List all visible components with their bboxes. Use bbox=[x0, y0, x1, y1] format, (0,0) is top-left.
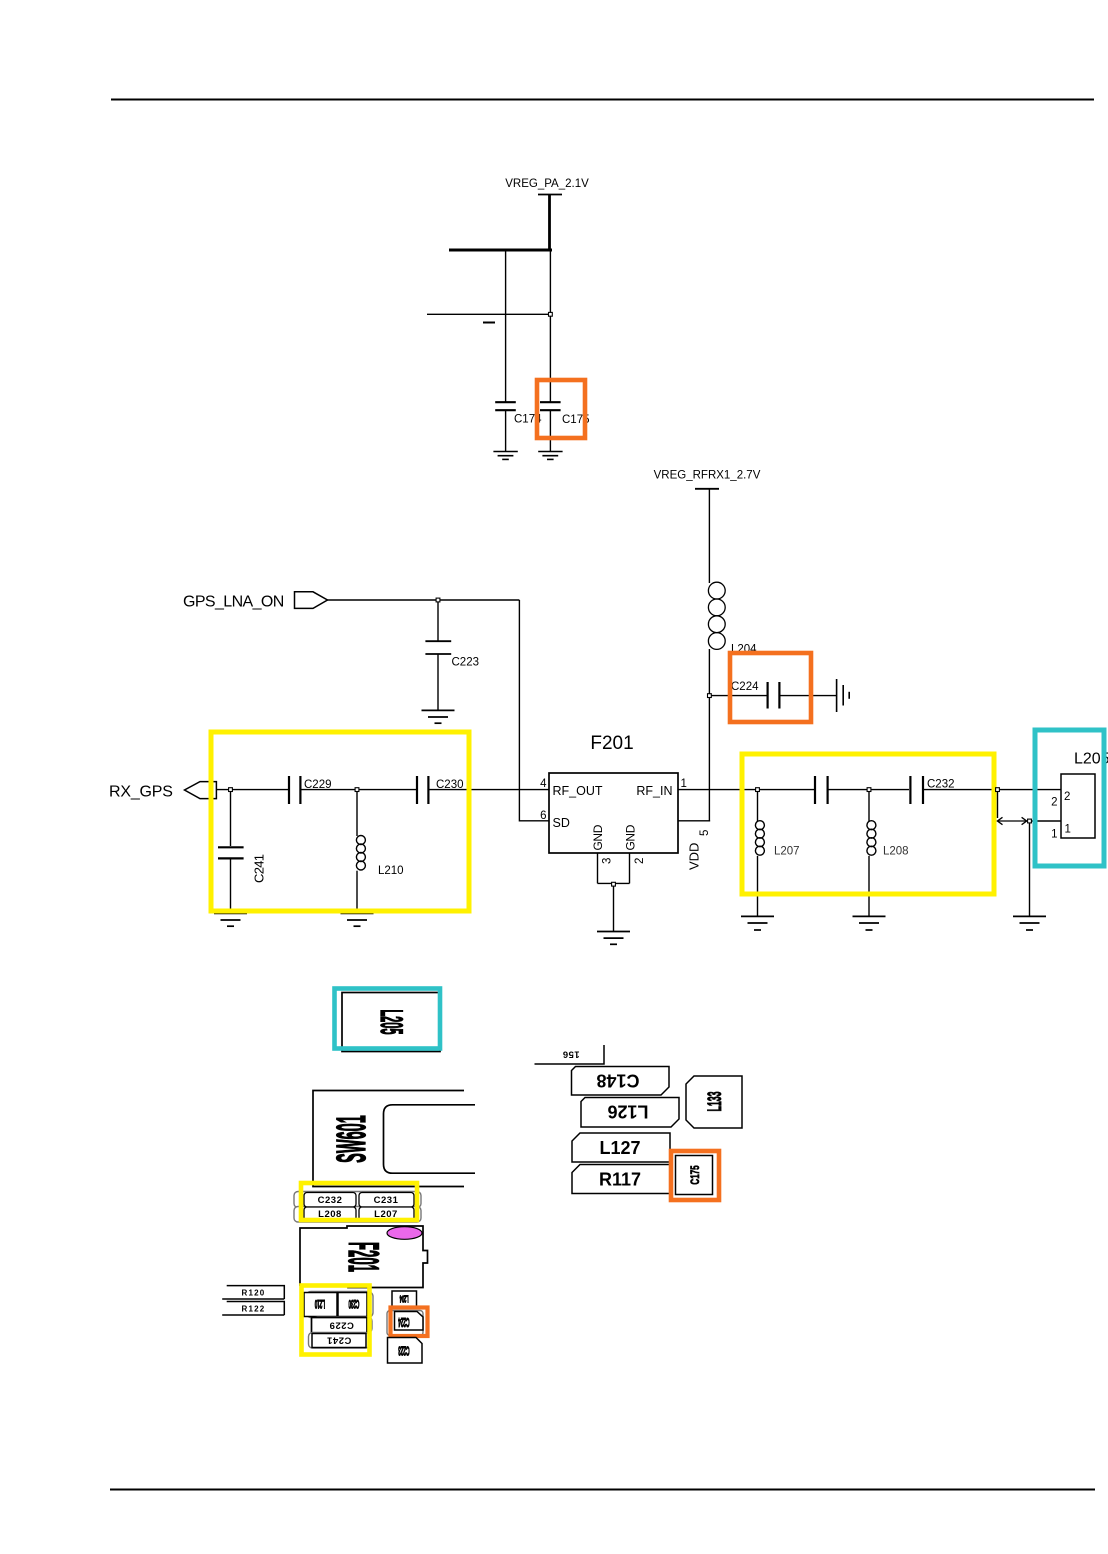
svg-text:C231: C231 bbox=[374, 1195, 399, 1206]
junction node C241 tap bbox=[229, 788, 233, 792]
highlight yellow box pcb C232 group bbox=[301, 1183, 417, 1220]
svg-text:GND: GND bbox=[591, 824, 605, 850]
wire GPS_LNA_ON horizontal bbox=[328, 599, 520, 601]
wire thin horizontal branch bbox=[427, 313, 551, 315]
svg-text:C230: C230 bbox=[349, 1298, 360, 1311]
wire RX_GPS to C229 bbox=[216, 789, 288, 791]
svg-text:C175: C175 bbox=[690, 1165, 703, 1184]
svg-text:L133: L133 bbox=[706, 1091, 727, 1111]
svg-text:C229: C229 bbox=[329, 1319, 354, 1330]
pcb part C241 bbox=[312, 1334, 366, 1348]
wire vertical L204 to VDD corner bbox=[708, 649, 710, 822]
ground small C175 bbox=[538, 452, 562, 460]
svg-text:3: 3 bbox=[601, 858, 613, 864]
highlight cyan box L205 schematic bbox=[1035, 730, 1104, 866]
svg-text:F201: F201 bbox=[340, 1242, 387, 1272]
highlight cyan box pcb L205 bbox=[335, 989, 441, 1049]
page border bottom rule bbox=[110, 1489, 1095, 1491]
input flag GPS_LNA_ON bbox=[295, 592, 328, 609]
pcb part C231 bbox=[359, 1193, 414, 1208]
junction node L208 bbox=[867, 788, 871, 792]
wire thin vertical to C174 bbox=[505, 250, 507, 402]
ground large L210 bbox=[341, 913, 374, 926]
junction node C223 tap bbox=[436, 598, 440, 602]
svg-text:R122: R122 bbox=[242, 1304, 266, 1313]
highlight orange box around C224 bbox=[730, 653, 811, 722]
highlight orange box around C175 bbox=[537, 380, 585, 438]
svg-text:L210: L210 bbox=[378, 865, 404, 877]
wire thin vertical to C175 bbox=[549, 251, 551, 402]
svg-text:2: 2 bbox=[1051, 797, 1057, 809]
junction node L207 bbox=[756, 788, 760, 792]
output flag RX_GPS bbox=[185, 782, 217, 799]
svg-text:L207: L207 bbox=[774, 846, 800, 858]
svg-text:5: 5 bbox=[699, 830, 711, 836]
capacitor C230 bbox=[417, 776, 549, 804]
pcb courtyard small pair bbox=[306, 1292, 373, 1318]
wire L208 junction to C232 bbox=[871, 789, 909, 791]
svg-text:C230: C230 bbox=[436, 779, 464, 791]
wire down to L207 bbox=[757, 792, 759, 822]
svg-text:L127: L127 bbox=[599, 1138, 640, 1158]
svg-text:2: 2 bbox=[634, 858, 646, 864]
svg-text:C241: C241 bbox=[326, 1335, 351, 1346]
pcb part C224 box bbox=[395, 1312, 424, 1331]
pcb part L127 bbox=[572, 1133, 670, 1162]
pcb small part above orange bbox=[392, 1291, 417, 1307]
svg-text:R120: R120 bbox=[242, 1288, 266, 1297]
highlight yellow box output filter bbox=[742, 754, 994, 894]
svg-text:156: 156 bbox=[562, 1049, 579, 1060]
wire VDD pin stub bbox=[678, 820, 710, 822]
svg-text:VDD: VDD bbox=[686, 843, 701, 870]
svg-text:GPS_LNA_ON: GPS_LNA_ON bbox=[183, 594, 284, 611]
capacitor C224 bbox=[768, 682, 836, 709]
pcb small part box 2 bbox=[338, 1293, 367, 1317]
capacitor C231 (unlabeled) bbox=[815, 776, 867, 804]
svg-text:GND: GND bbox=[623, 824, 637, 850]
pcb part R117 bbox=[572, 1165, 670, 1194]
pcb part C148 bbox=[572, 1067, 670, 1096]
pcb part C175 box bbox=[676, 1156, 713, 1195]
capacitor C232 bbox=[910, 776, 996, 804]
svg-text:6: 6 bbox=[540, 810, 546, 822]
ground large L207 bbox=[741, 916, 774, 930]
stray dash mark bbox=[483, 322, 495, 324]
junction node C224 tap bbox=[708, 694, 712, 698]
pcb part L126 bbox=[581, 1098, 679, 1128]
svg-text:L210: L210 bbox=[315, 1298, 325, 1311]
capacitor C175 bbox=[540, 402, 561, 451]
pcb trace corner line bbox=[535, 1045, 605, 1064]
svg-text:C232: C232 bbox=[318, 1195, 343, 1206]
IC F201 body bbox=[549, 773, 678, 853]
svg-text:C224: C224 bbox=[731, 681, 759, 693]
ground large L208 bbox=[853, 916, 886, 930]
svg-text:SD: SD bbox=[553, 816, 570, 830]
wire RF_IN to L207 junction bbox=[678, 789, 757, 791]
svg-text:C223: C223 bbox=[452, 656, 480, 668]
pcb pin1 marker magenta ellipse bbox=[387, 1227, 422, 1240]
ground large F201 bbox=[597, 932, 630, 945]
wire thick horizontal bus bbox=[449, 249, 552, 252]
pcb part L205 outline bbox=[342, 993, 440, 1052]
wire SD horizontal bbox=[519, 820, 549, 822]
pcb courtyard row2 bbox=[294, 1207, 421, 1223]
page border top rule bbox=[111, 99, 1094, 101]
svg-text:1: 1 bbox=[1051, 829, 1057, 841]
pcb courtyard C241 bbox=[309, 1333, 370, 1349]
wire C229 to C230 bbox=[359, 789, 416, 791]
svg-text:C232: C232 bbox=[927, 779, 955, 791]
inductor L208 bbox=[867, 821, 876, 856]
svg-text:RX_GPS: RX_GPS bbox=[109, 784, 173, 801]
svg-text:RF_OUT: RF_OUT bbox=[553, 784, 603, 798]
pcb courtyard C229 bbox=[314, 1317, 373, 1333]
pcb SW601 slot bbox=[384, 1105, 476, 1173]
wire junction to connector pin1 bbox=[1032, 820, 1061, 822]
wire L210 to ground bbox=[356, 871, 358, 913]
svg-text:VREG_RFRX1_2.7V: VREG_RFRX1_2.7V bbox=[654, 470, 761, 482]
junction node at thick line branch bbox=[549, 312, 553, 316]
highlight yellow box RX filter bbox=[211, 732, 469, 911]
power bar VREG_RFRX1 bbox=[695, 488, 719, 490]
svg-text:L205: L205 bbox=[374, 1009, 409, 1034]
wire between arrows bbox=[997, 820, 1027, 822]
ground sideways for C224 bbox=[837, 679, 850, 712]
pcb part R122 bbox=[222, 1302, 284, 1316]
svg-text:1: 1 bbox=[681, 778, 687, 790]
svg-text:2: 2 bbox=[1064, 791, 1070, 803]
connector L205 body bbox=[1061, 774, 1095, 838]
inductor L207 bbox=[755, 821, 764, 856]
wire down to L210 bbox=[356, 792, 358, 836]
pcb part L208 bbox=[304, 1207, 356, 1221]
highlight yellow box pcb C229 group bbox=[302, 1286, 370, 1355]
capacitor C229 bbox=[289, 776, 356, 804]
wire L207 to ground bbox=[757, 856, 759, 916]
wire down to ground bbox=[1029, 823, 1031, 916]
inductor L210 bbox=[356, 836, 365, 871]
wire down from junction with arrow bbox=[997, 792, 999, 818]
svg-text:RF_IN: RF_IN bbox=[636, 784, 672, 798]
highlight orange box pcb C224 bbox=[391, 1308, 428, 1337]
junction node GND bbox=[612, 882, 616, 886]
svg-text:VREG_PA_2.1V: VREG_PA_2.1V bbox=[505, 178, 589, 190]
svg-text:1: 1 bbox=[1065, 824, 1071, 836]
pcb courtyard C224 bbox=[387, 1311, 423, 1336]
wire to C224 bbox=[711, 695, 767, 697]
junction node pin1 wire bbox=[1028, 819, 1032, 823]
wire vertical down to SD bbox=[518, 600, 520, 822]
svg-text:R117: R117 bbox=[599, 1170, 641, 1190]
junction node output bbox=[996, 788, 1000, 792]
svg-text:F201: F201 bbox=[590, 733, 633, 754]
svg-text:C241: C241 bbox=[252, 854, 267, 883]
arrow right end bbox=[1022, 817, 1027, 824]
pcb part L133 bbox=[686, 1076, 742, 1128]
pcb part SW601 outline bbox=[313, 1091, 464, 1187]
ground large C223 bbox=[422, 710, 455, 723]
pcb part C232 bbox=[304, 1193, 356, 1208]
svg-text:SW601: SW601 bbox=[328, 1115, 375, 1163]
wire thick vertical from power bar bbox=[548, 195, 551, 252]
pcb part F201 outline bbox=[300, 1226, 428, 1288]
pcb part R120 bbox=[222, 1286, 284, 1299]
power bar VREG_PA bbox=[538, 194, 562, 196]
ground large connector bbox=[1013, 916, 1046, 930]
svg-text:C224: C224 bbox=[398, 1314, 410, 1328]
svg-text:C148: C148 bbox=[596, 1071, 639, 1091]
capacitor C223 bbox=[425, 641, 451, 710]
pcb small part box 1 bbox=[304, 1293, 337, 1317]
svg-text:4: 4 bbox=[540, 778, 547, 790]
ground small C174 bbox=[493, 452, 517, 460]
wire L208 to ground bbox=[868, 856, 870, 916]
svg-text:L208: L208 bbox=[883, 846, 909, 858]
wire junction to connector pin2 bbox=[1000, 789, 1061, 791]
arrow left end bbox=[997, 817, 1002, 824]
svg-text:L126: L126 bbox=[607, 1102, 648, 1122]
pcb part L207 bbox=[359, 1207, 414, 1221]
svg-text:L204: L204 bbox=[399, 1293, 408, 1305]
inductor L204 bbox=[708, 582, 725, 649]
wire vertical from bar to L204 bbox=[708, 489, 710, 583]
capacitor C241 bbox=[218, 847, 244, 913]
wire down to C241 bbox=[230, 792, 232, 846]
pcb courtyard row1 bbox=[294, 1192, 421, 1208]
wire junction to C231 bbox=[760, 789, 814, 791]
svg-text:C229: C229 bbox=[304, 779, 332, 791]
wire down to C223 bbox=[437, 602, 439, 641]
svg-text:C223: C223 bbox=[398, 1342, 409, 1356]
pcb part C229 bbox=[312, 1318, 368, 1334]
wire down to L208 bbox=[868, 792, 870, 822]
ground large C241 bbox=[214, 913, 247, 926]
capacitor C174 bbox=[495, 402, 516, 451]
junction node L210 tap bbox=[355, 788, 359, 792]
GND pin stubs and bar bbox=[598, 853, 630, 931]
highlight orange box pcb C175 bbox=[671, 1151, 719, 1200]
pcb part C223 box bbox=[388, 1338, 423, 1364]
